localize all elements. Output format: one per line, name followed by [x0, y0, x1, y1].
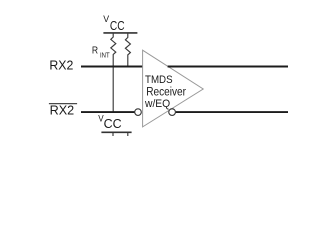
inversion bubble (output, lower) [169, 109, 176, 116]
svg-text:CC: CC [104, 116, 122, 131]
power VCC (bottom) rail bar [101, 131, 131, 133]
svg-text:w/EQ: w/EQ [144, 98, 170, 110]
power VCC (top) label [103, 13, 124, 33]
label RX2# (overline) [49, 103, 77, 105]
svg-text:CC: CC [110, 18, 125, 33]
resistor R_INT (left, terminates RX2#) [111, 33, 116, 112]
resistor lead (bottom right, partial) [127, 133, 129, 136]
svg-text:RX2: RX2 [50, 104, 75, 118]
svg-text:R: R [92, 46, 98, 57]
svg-text:RX2: RX2 [49, 59, 73, 73]
wire RX2 input [81, 66, 143, 68]
svg-text:Receiver: Receiver [146, 86, 186, 98]
svg-text:V: V [103, 13, 110, 24]
wire RX2# input [81, 111, 135, 113]
inversion bubble (input, RX2#) [135, 109, 142, 116]
wire output lower [176, 111, 288, 113]
power VCC (top) rail bar [103, 32, 137, 34]
svg-text:TMDS: TMDS [145, 74, 173, 86]
power VCC (bottom) label [98, 113, 122, 131]
resistor R_INT (right, terminates RX2) [125, 33, 130, 67]
wire output upper [168, 66, 288, 68]
op-amp TMDS receiver triangle [143, 50, 204, 127]
resistor lead (bottom left, partial) [112, 133, 114, 136]
svg-text:INT: INT [100, 53, 110, 60]
label R_INT [92, 46, 110, 60]
